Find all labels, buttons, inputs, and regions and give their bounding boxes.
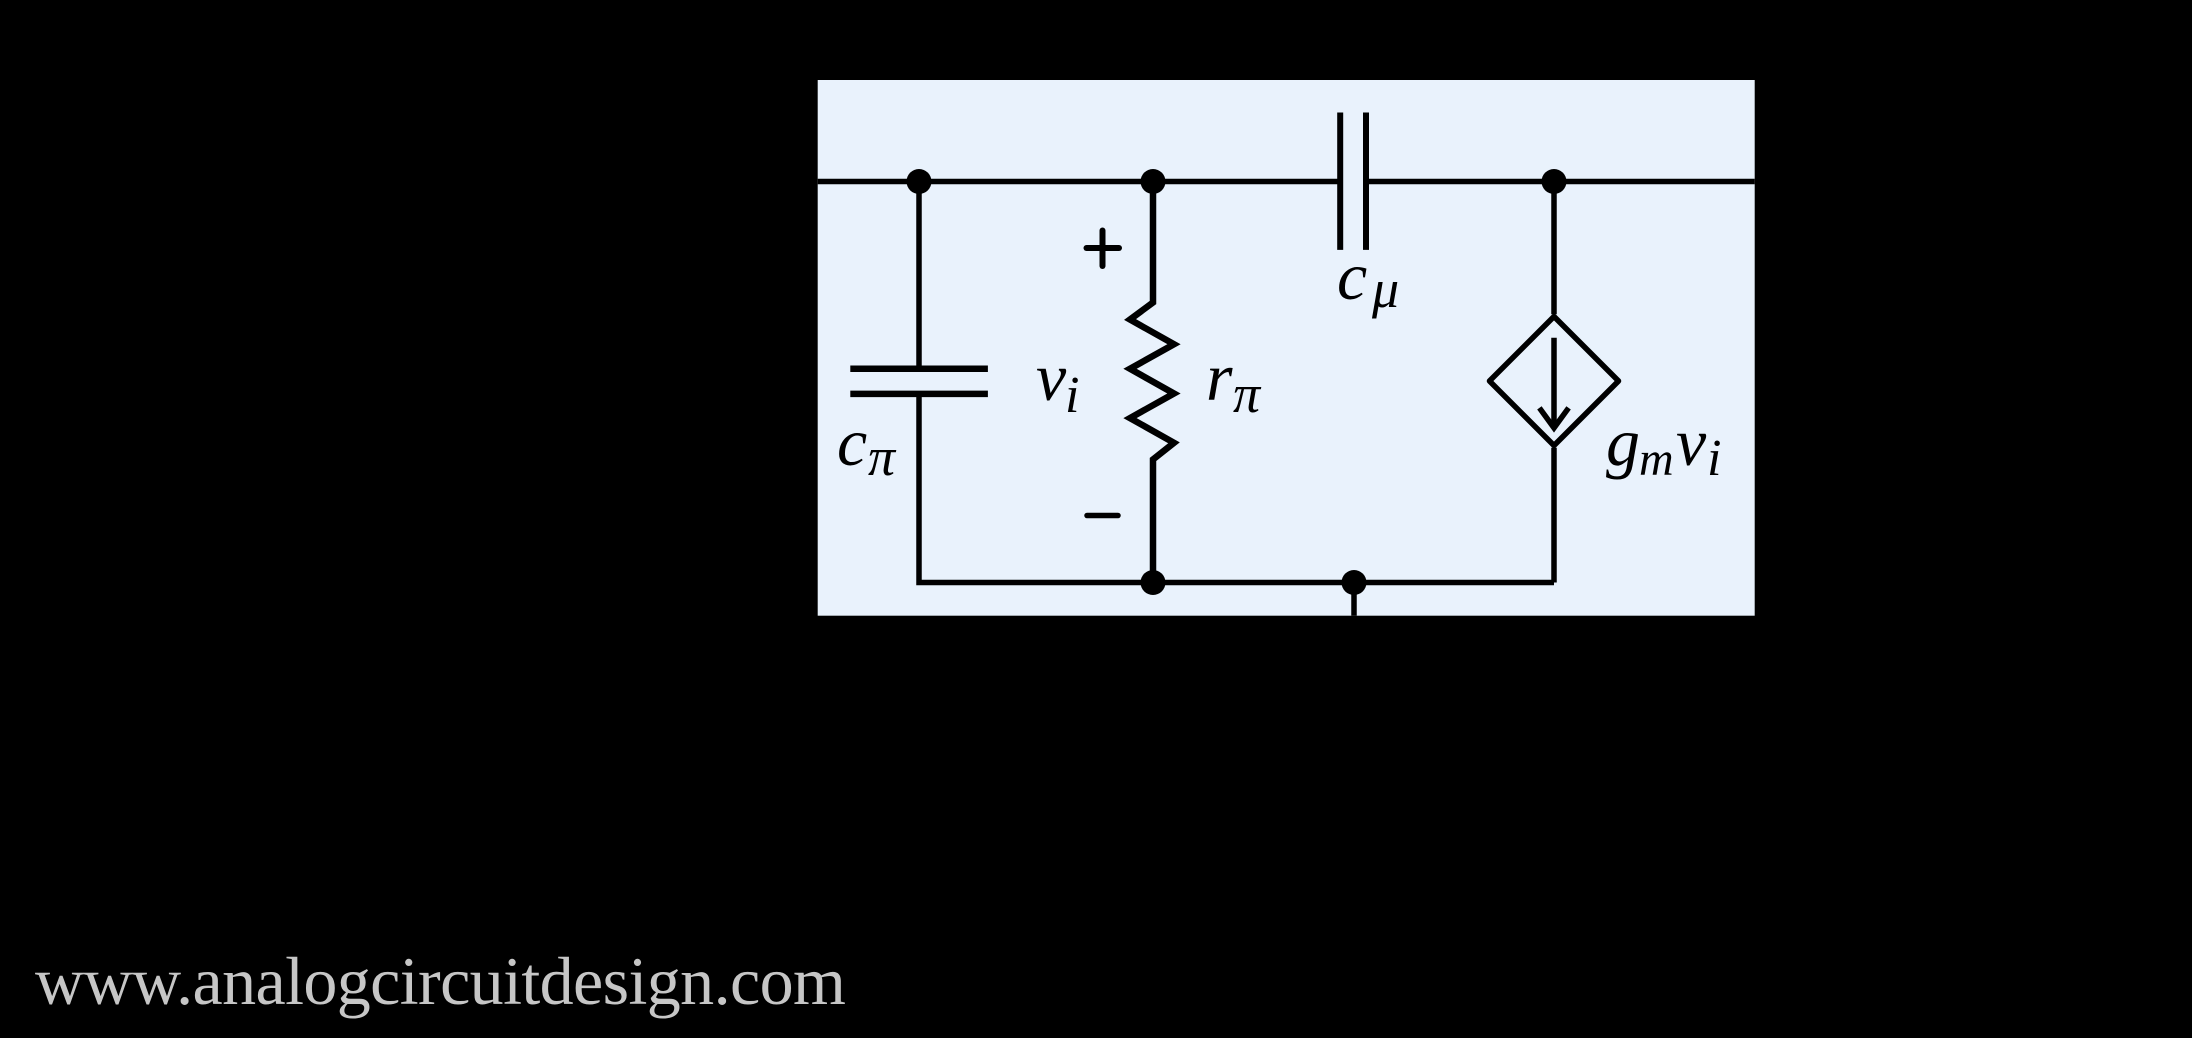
plus sign of v_i bbox=[1087, 231, 1120, 267]
capacitor C_mu left plate bbox=[1337, 113, 1343, 250]
wire current-source branch lower bbox=[1551, 448, 1557, 583]
svg-text:π: π bbox=[1233, 364, 1262, 424]
node on top wire at current source branch bbox=[1542, 169, 1567, 194]
capacitor C_mu right plate bbox=[1363, 113, 1369, 250]
node on top wire at r_pi branch bbox=[1141, 169, 1166, 194]
wire C_pi branch lower plus bottom wire bbox=[919, 394, 1554, 583]
svg-text:μ: μ bbox=[1371, 259, 1399, 319]
node on bottom wire at r_pi branch bbox=[1141, 570, 1166, 595]
wire top right segment (C_mu to output node) bbox=[1366, 179, 1755, 185]
node on bottom wire at ground stub bbox=[1342, 570, 1367, 595]
capacitor C_pi bottom plate bbox=[850, 391, 988, 398]
resistor r_pi branch with zigzag bbox=[1130, 182, 1174, 583]
node on top wire at C_pi branch bbox=[907, 169, 932, 194]
current source arrow shaft bbox=[1551, 338, 1557, 424]
svg-text:v: v bbox=[1676, 404, 1707, 480]
svg-text:v: v bbox=[1036, 339, 1067, 415]
svg-text:r: r bbox=[1206, 339, 1233, 415]
svg-text:i: i bbox=[1707, 430, 1721, 487]
wire current-source branch upper bbox=[1551, 182, 1557, 315]
circuit panel bbox=[818, 80, 1755, 616]
current source diamond bbox=[1490, 317, 1619, 446]
wire C_pi branch upper bbox=[916, 182, 922, 369]
svg-text:π: π bbox=[868, 427, 897, 487]
svg-text:www.analogcircuitdesign.com: www.analogcircuitdesign.com bbox=[35, 943, 845, 1019]
svg-text:c: c bbox=[837, 404, 867, 480]
svg-text:c: c bbox=[1337, 238, 1367, 314]
capacitor C_pi top plate bbox=[850, 366, 988, 373]
svg-text:m: m bbox=[1639, 433, 1674, 486]
current source arrow head bbox=[1539, 408, 1568, 428]
svg-text:i: i bbox=[1065, 367, 1079, 424]
wire top left segment (input node B to C_mu) bbox=[818, 179, 1340, 185]
ground stub wire bbox=[1351, 583, 1357, 616]
minus sign of v_i bbox=[1087, 513, 1118, 519]
svg-text:g: g bbox=[1606, 404, 1640, 480]
